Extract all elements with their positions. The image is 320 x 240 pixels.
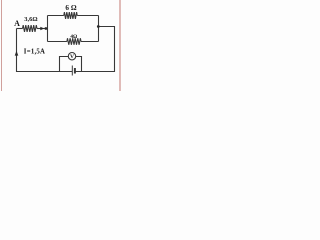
svg-text:4Ω: 4Ω [70,34,77,40]
svg-text:A: A [14,19,20,28]
svg-text:V: V [70,54,74,60]
svg-text:I=1,5A: I=1,5A [24,49,45,56]
svg-text:3,6Ω: 3,6Ω [24,16,37,23]
svg-text:6 Ω: 6 Ω [65,4,76,12]
